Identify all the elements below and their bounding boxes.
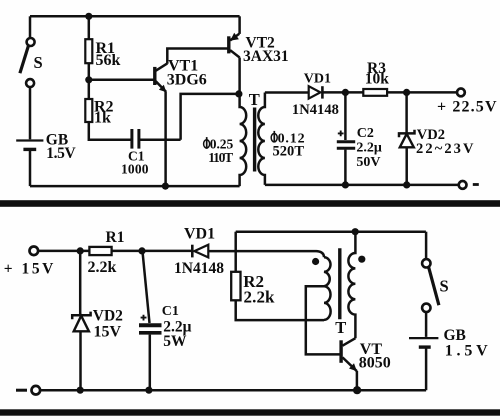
- wire C1 branch (bottom): [143, 252, 150, 324]
- wire switch to upper rail: [425, 232, 428, 259]
- transistor VT base bar: [339, 340, 342, 363]
- capacitor C1 1000 right plate: [137, 129, 140, 149]
- battery GB negative plate (bottom): [419, 345, 431, 348]
- node VD2 top dot: [403, 89, 410, 96]
- wire winding tap to base: [306, 286, 340, 354]
- battery GB positive plate (bottom): [409, 337, 438, 339]
- phase dot left winding: [312, 258, 319, 265]
- wire battery rail upper: [236, 230, 426, 233]
- terminal minus (top circuit): [459, 181, 467, 189]
- svg-text:2.2k: 2.2k: [244, 287, 276, 306]
- wire C1 to feedback corner: [139, 139, 181, 142]
- node VD2 branch dot: [77, 247, 84, 254]
- wire battery to bottom rail: [29, 151, 32, 186]
- wire R2 bottom to winding bottom: [236, 300, 324, 320]
- transistor VT2 emitter arrow (PNP): [230, 33, 239, 41]
- node base bias dot: [85, 76, 92, 83]
- transistor VT1 base bar: [153, 67, 156, 85]
- svg-text:T: T: [335, 318, 346, 337]
- wire C2 to bottom rail: [344, 150, 347, 185]
- transformer T core: [253, 108, 256, 172]
- wire VT2 collector down: [238, 58, 241, 94]
- wire node to R3: [345, 91, 363, 94]
- svg-text:110T: 110T: [208, 150, 233, 165]
- zener VD2 triangle: [400, 134, 414, 148]
- separator bar bottom: [0, 409, 500, 415]
- switch S arm: [20, 46, 29, 73]
- wire base node to VT1 base: [89, 79, 154, 82]
- separator bar middle: [0, 200, 500, 207]
- node main winding top dot: [352, 228, 359, 235]
- svg-text:56k: 56k: [96, 52, 121, 69]
- svg-text:2.2k: 2.2k: [88, 259, 117, 276]
- minus sign mark (bottom): [16, 389, 27, 392]
- wire +15V rail: [38, 250, 192, 253]
- battery GB negative plate: [23, 148, 36, 151]
- svg-text:15V: 15V: [94, 324, 122, 341]
- wire secondary top to VD1: [265, 91, 309, 94]
- transistor VT1 emitter lead: [156, 81, 166, 92]
- wire node to + terminal: [407, 91, 458, 94]
- node C2 bottom dot: [342, 181, 349, 188]
- svg-text:520T: 520T: [273, 143, 305, 159]
- transformer T core (bottom): [338, 248, 341, 319]
- node VD2 bottom dot: [403, 181, 410, 188]
- zener VD2 cathode bar with hooks: [399, 130, 415, 138]
- wire bottom rail left (primary side): [30, 185, 240, 188]
- svg-text:22~23V: 22~23V: [416, 141, 474, 157]
- svg-text:1k: 1k: [94, 110, 111, 127]
- wire VT1 collector to VT2 base: [167, 49, 227, 64]
- svg-text:R1: R1: [106, 229, 125, 246]
- transistor VT emitter lead: [343, 357, 357, 371]
- transistor VT emitter arrow: [349, 363, 357, 371]
- transformer T feedback winding lower: [324, 286, 331, 320]
- wire bottom rail right (secondary side): [265, 184, 459, 187]
- svg-text:1N4148: 1N4148: [292, 102, 339, 118]
- node C1 bottom rail dot: [145, 387, 152, 394]
- transformer T main winding: [348, 232, 355, 339]
- capacitor C1 bottom plate (bottom): [139, 331, 162, 335]
- capacitor C2 bottom plate: [337, 147, 355, 150]
- wire rail corner down to R2: [234, 232, 237, 272]
- wire VT emitter to bottom rail: [356, 371, 359, 390]
- svg-text:1N4148: 1N4148: [174, 260, 224, 277]
- svg-text:C2: C2: [357, 126, 374, 141]
- wire battery to switch: [425, 312, 428, 337]
- switch S arm (bottom): [429, 267, 439, 305]
- node C1 branch dot: [138, 247, 145, 254]
- svg-text:VD2: VD2: [93, 307, 123, 324]
- wire R2 to C1: [89, 122, 132, 140]
- wire C1 to bottom rail: [149, 335, 152, 391]
- resistor R3 10k: [363, 89, 387, 96]
- wire VD2 branch (bottom): [79, 251, 82, 315]
- wire VT1 emitter to bottom rail: [164, 92, 167, 187]
- resistor R2 2.2k (bottom): [231, 272, 240, 301]
- wire feedback riser: [181, 94, 239, 140]
- transistor VT1 emitter arrow: [159, 85, 166, 92]
- minus sign mark: [473, 183, 479, 186]
- svg-text:1000: 1000: [121, 161, 149, 176]
- svg-text:8050: 8050: [359, 355, 391, 372]
- node R1 top rail dot: [85, 13, 92, 20]
- wire C2 branch: [344, 92, 347, 140]
- resistor R2 1k: [85, 99, 92, 122]
- zener VD2 triangle (bottom): [74, 316, 89, 332]
- svg-text:S: S: [34, 53, 43, 72]
- node collector/primary dot: [235, 90, 242, 97]
- terminal +15V: [30, 247, 39, 256]
- node emitter junction dot: [162, 183, 169, 190]
- wire R1 to base node: [88, 63, 91, 99]
- transformer T primary winding 110T: [240, 94, 247, 186]
- wire VD1 to winding top: [208, 251, 324, 257]
- diode VD1 cathode bar: [321, 86, 324, 98]
- wire switch to battery: [29, 87, 32, 139]
- wire bottom rail (bottom circuit): [40, 389, 426, 392]
- svg-text:2.2μ: 2.2μ: [356, 141, 382, 156]
- diode VD1 cathode bar (bottom): [191, 245, 194, 258]
- zener VD2 cathode bar with hooks (bottom): [72, 312, 90, 320]
- svg-text:3DG6: 3DG6: [167, 72, 207, 89]
- svg-text:50V: 50V: [356, 155, 380, 170]
- wire rail corner up to battery: [425, 349, 428, 391]
- capacitor C1 plus sign (bottom): [141, 315, 147, 321]
- wire VD2 branch: [405, 92, 408, 133]
- diode VD1 1N4148 triangle (bottom, pointing left): [194, 245, 208, 258]
- capacitor C2 top plate: [337, 140, 355, 143]
- svg-text:5W: 5W: [163, 333, 187, 350]
- capacitor C1 top plate (bottom): [139, 323, 162, 327]
- resistor R1 56k: [85, 39, 92, 63]
- transformer T secondary winding 520T: [258, 93, 265, 185]
- capacitor C2 plus sign: [338, 131, 344, 137]
- switch S bottom contact: [26, 79, 34, 87]
- battery GB positive plate: [16, 139, 43, 141]
- switch S bottom contact (bottom): [422, 304, 430, 312]
- svg-text:3AX31: 3AX31: [243, 48, 289, 65]
- svg-text:1.5V: 1.5V: [445, 342, 488, 359]
- svg-text:+ 15V: + 15V: [4, 261, 54, 278]
- wire rail to R1: [88, 16, 91, 39]
- svg-text:VD1: VD1: [184, 225, 215, 242]
- transistor VT collector lead: [343, 338, 356, 346]
- svg-text:10k: 10k: [365, 71, 390, 88]
- switch S top contact: [27, 38, 35, 46]
- wire VD1 to node: [322, 91, 345, 94]
- wire R3 to VD2 node: [387, 91, 407, 94]
- capacitor C1 1000 left plate: [130, 129, 133, 149]
- transistor VT2 collector lead: [230, 50, 239, 57]
- label phi 0.25: [204, 140, 210, 148]
- svg-text:VD1: VD1: [304, 71, 331, 86]
- svg-text:T: T: [249, 90, 260, 109]
- transistor VT2 emitter lead: [230, 34, 239, 41]
- switch S top contact (bottom): [422, 259, 430, 267]
- wire top rail to VT2 emitter: [238, 16, 241, 34]
- wire left drop to switch: [29, 16, 32, 38]
- terminal minus (bottom circuit): [32, 386, 41, 395]
- transistor VT2 base bar: [227, 36, 230, 53]
- diode VD1 1N4148 triangle: [309, 86, 321, 98]
- wire top rail: [30, 15, 240, 18]
- resistor R1 2.2k: [89, 247, 111, 255]
- svg-text:C1: C1: [162, 304, 179, 319]
- svg-text:S: S: [440, 276, 449, 295]
- terminal +22.5V: [457, 89, 465, 97]
- transformer T feedback winding upper: [324, 257, 331, 286]
- transistor VT1 collector lead: [156, 63, 168, 70]
- phase dot right winding: [358, 256, 365, 263]
- wire VD2 to bottom rail (bottom): [79, 331, 82, 390]
- node VD2 bottom rail dot: [77, 387, 84, 394]
- node VT emitter rail dot: [353, 386, 361, 394]
- svg-text:+ 22.5V: + 22.5V: [437, 99, 497, 116]
- wire VD2 to bottom rail: [405, 147, 408, 185]
- svg-text:1.5V: 1.5V: [46, 145, 76, 162]
- label phi 0.12: [271, 134, 277, 142]
- node C2 top dot: [342, 89, 349, 96]
